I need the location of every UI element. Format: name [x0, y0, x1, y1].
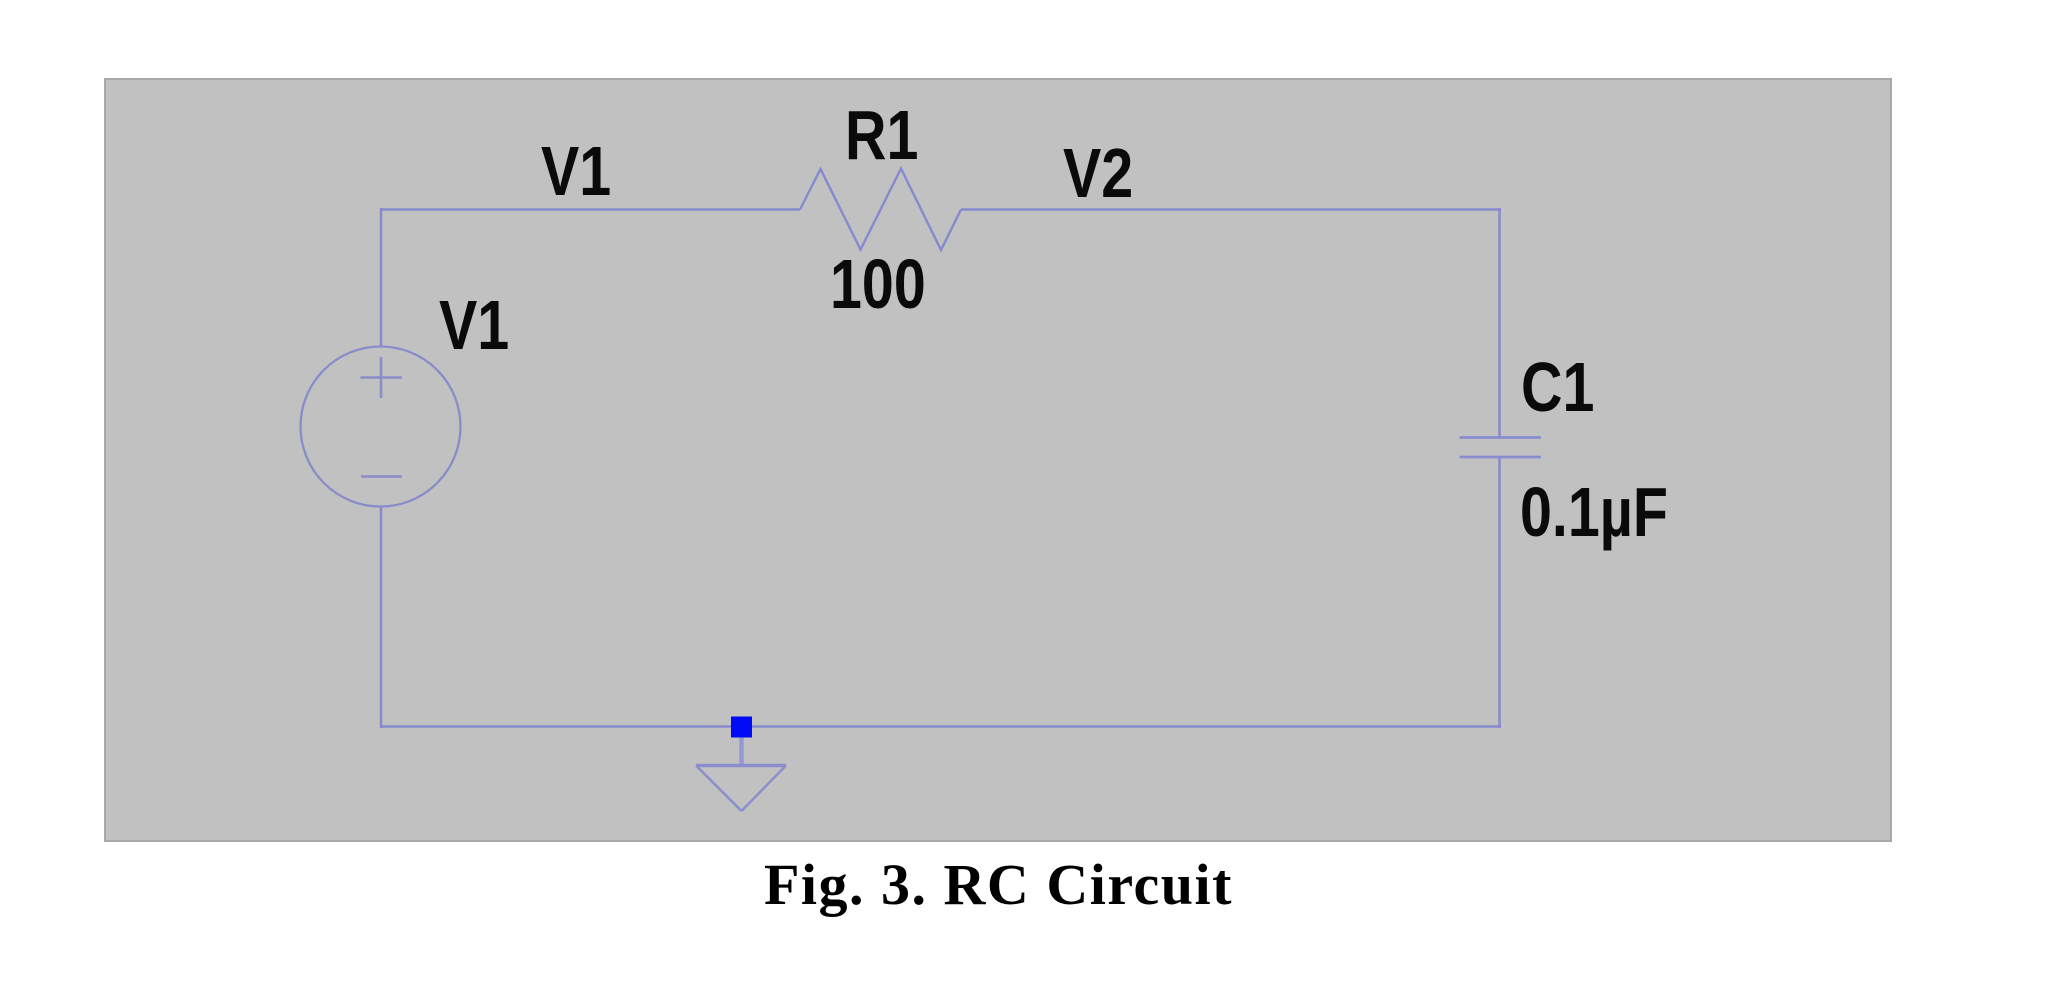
wire left vertical upper — [380, 208, 383, 347]
ground stub — [739, 738, 744, 765]
figure caption — [764, 856, 1233, 914]
wire top-left (node V1) — [381, 208, 800, 211]
net label V2 — [1063, 138, 1133, 208]
resistor R1 — [800, 169, 961, 251]
capacitor label C1 — [1521, 352, 1594, 422]
capacitor value 0.1uF — [1520, 477, 1668, 547]
net label V1 — [541, 136, 611, 206]
source label V1 — [439, 290, 509, 360]
wire bottom — [381, 725, 1501, 728]
ground symbol — [696, 766, 786, 812]
plus sign — [361, 357, 403, 398]
wire right vertical upper — [1498, 208, 1501, 438]
wire right vertical lower — [1498, 457, 1501, 728]
resistor value 100 — [830, 249, 926, 319]
capacitor C1 — [1460, 438, 1542, 458]
voltage source V1 circle — [301, 347, 461, 507]
schematic gray background — [104, 78, 1892, 842]
node junction square — [731, 717, 752, 738]
minus sign — [361, 475, 402, 478]
resistor label R1 — [845, 100, 918, 170]
wire top-right (node V2) — [961, 208, 1501, 211]
wire left vertical lower — [380, 507, 383, 728]
